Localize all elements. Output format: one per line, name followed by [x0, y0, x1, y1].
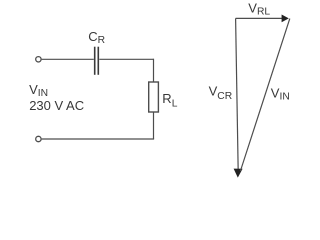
wire right vertical lower: [153, 112, 155, 139]
phasor VCR line: [236, 18, 239, 172]
wire top horizontal (capacitor to right corner): [99, 58, 153, 60]
merged arrowheads of phasors VCR and VIN: [234, 169, 243, 178]
wire right vertical upper: [153, 59, 155, 83]
phasor VRL arrowhead: [282, 15, 289, 23]
terminal top-left: [36, 57, 41, 62]
svg-text:230 V AC: 230 V AC: [29, 98, 84, 113]
capacitor CR left plate: [94, 47, 96, 75]
phasor VRL line: [236, 17, 283, 19]
resistor RL body: [149, 82, 159, 112]
wire bottom horizontal: [42, 138, 155, 140]
terminal bottom-left: [36, 136, 41, 141]
phasor VIN line: [240, 19, 289, 171]
capacitor CR right plate: [97, 47, 99, 75]
wire top horizontal (terminal to capacitor): [42, 58, 94, 60]
